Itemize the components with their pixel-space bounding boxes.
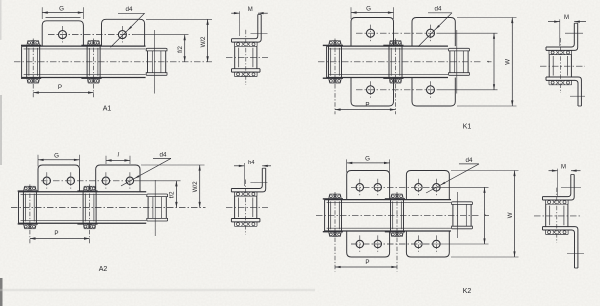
svg-text:P: P bbox=[54, 230, 58, 237]
svg-text:A2: A2 bbox=[99, 266, 108, 273]
svg-text:G: G bbox=[54, 152, 59, 159]
svg-text:W: W bbox=[507, 212, 514, 218]
svg-text:K2: K2 bbox=[463, 288, 472, 295]
svg-text:W: W bbox=[505, 59, 512, 65]
svg-text:f: f bbox=[484, 214, 491, 216]
svg-text:K1: K1 bbox=[463, 124, 472, 131]
svg-text:W/2: W/2 bbox=[192, 181, 199, 192]
svg-text:d4: d4 bbox=[126, 6, 133, 13]
svg-text:P: P bbox=[58, 84, 62, 91]
svg-text:G: G bbox=[365, 156, 370, 163]
svg-text:f/2: f/2 bbox=[177, 46, 184, 53]
svg-text:M: M bbox=[248, 7, 253, 13]
svg-text:A1: A1 bbox=[103, 106, 112, 113]
svg-text:M: M bbox=[561, 164, 566, 170]
svg-text:f/2: f/2 bbox=[169, 191, 176, 198]
svg-text:h4: h4 bbox=[248, 160, 255, 166]
svg-text:d4: d4 bbox=[160, 152, 167, 159]
svg-text:d4: d4 bbox=[466, 157, 473, 164]
svg-text:P: P bbox=[365, 259, 369, 266]
svg-text:d4: d4 bbox=[435, 6, 442, 13]
svg-text:W/2: W/2 bbox=[200, 36, 207, 47]
svg-text:f: f bbox=[486, 61, 493, 63]
svg-text:M: M bbox=[564, 15, 569, 21]
svg-text:G: G bbox=[366, 5, 371, 12]
svg-text:P: P bbox=[365, 101, 369, 108]
svg-text:G: G bbox=[59, 5, 64, 12]
